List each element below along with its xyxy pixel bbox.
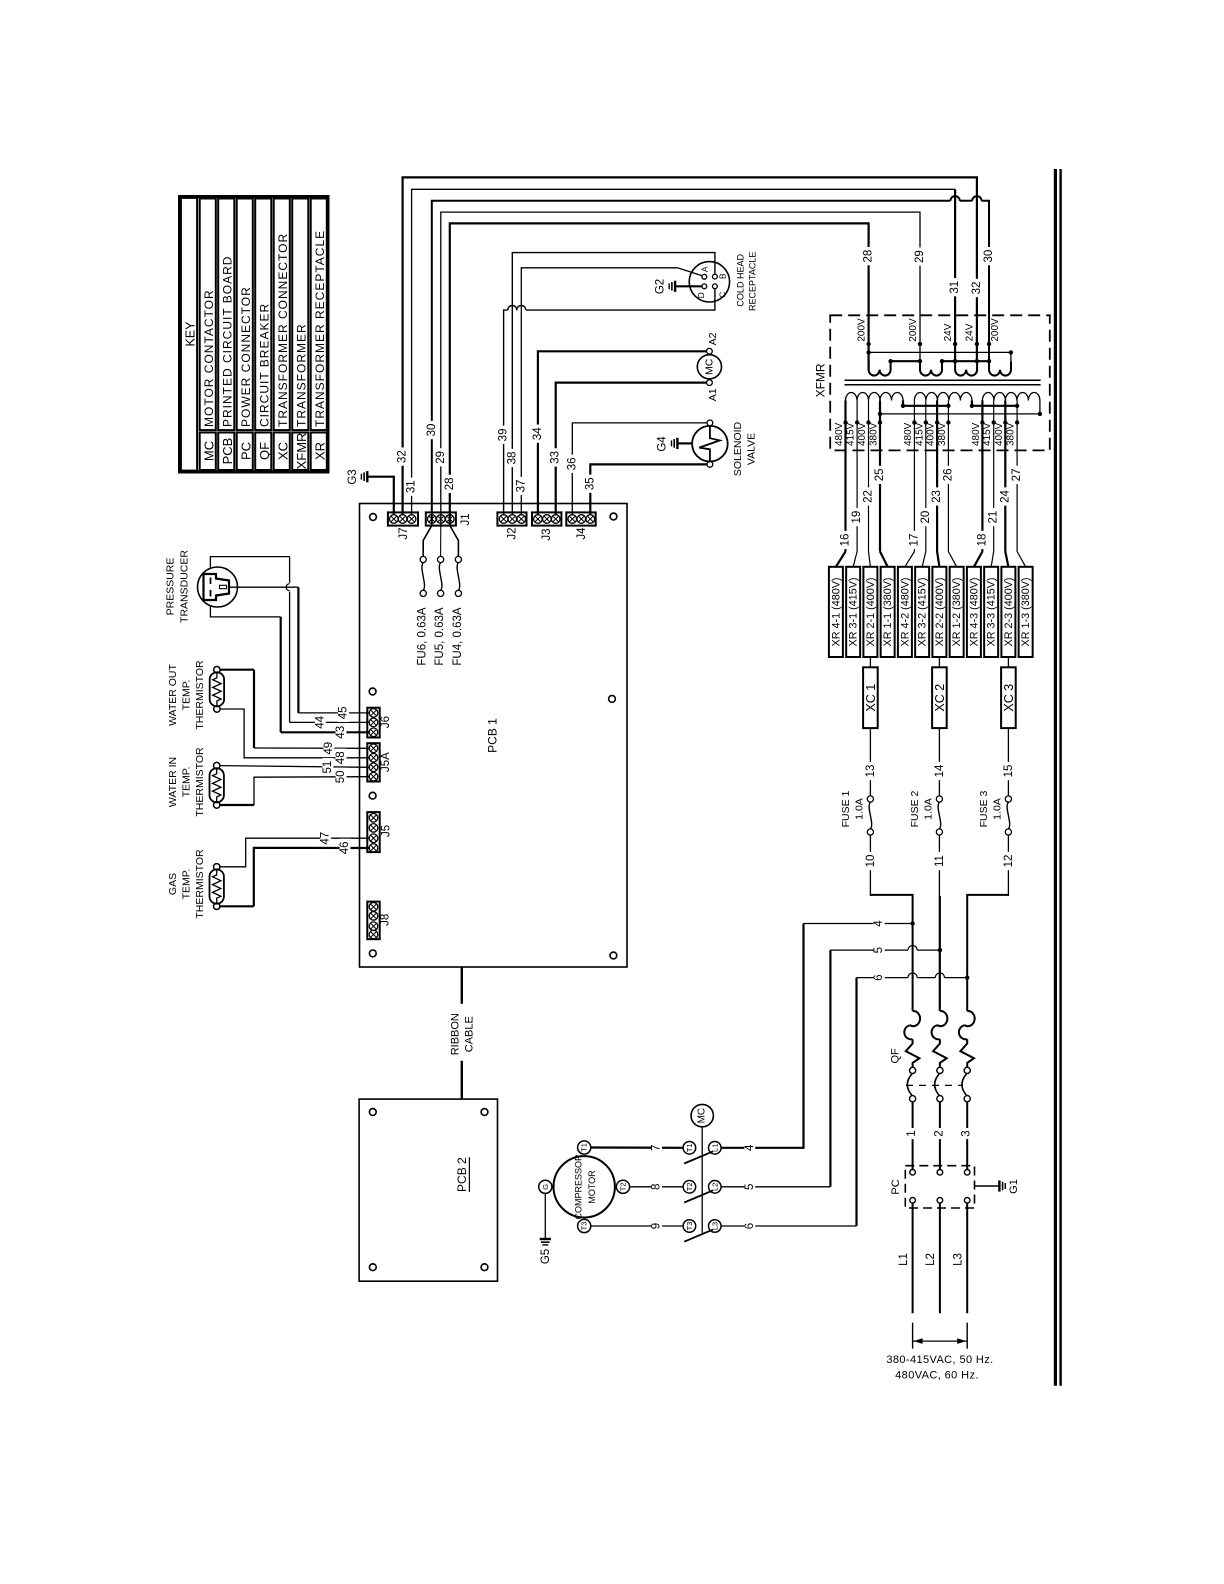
svg-text:G5: G5 xyxy=(540,1249,552,1264)
svg-text:8: 8 xyxy=(651,1184,663,1190)
connector J8 xyxy=(367,902,391,940)
svg-text:24V: 24V xyxy=(943,323,954,341)
svg-text:38: 38 xyxy=(506,452,518,465)
transformer primary winding P3 xyxy=(982,393,1040,401)
svg-text:TRANSFORMER RECEPTACLE: TRANSFORMER RECEPTACLE xyxy=(313,230,327,427)
svg-text:1.0A: 1.0A xyxy=(854,798,866,820)
wire 35 xyxy=(584,464,707,514)
primary tap voltage labels xyxy=(834,422,1017,446)
wire 48 xyxy=(220,709,369,767)
ground G1 xyxy=(975,1179,1021,1194)
svg-text:380V: 380V xyxy=(1006,422,1017,446)
wire 10 xyxy=(865,835,877,896)
svg-text:480V: 480V xyxy=(903,422,914,446)
svg-text:PCB 1: PCB 1 xyxy=(486,718,500,753)
svg-text:THERMISTOR: THERMISTOR xyxy=(194,747,206,817)
svg-text:11: 11 xyxy=(934,855,946,867)
wire L2 xyxy=(925,1203,940,1313)
svg-text:THERMISTOR: THERMISTOR xyxy=(194,660,206,730)
pressure transducer xyxy=(165,550,238,623)
svg-text:XR: XR xyxy=(312,442,327,460)
svg-text:A: A xyxy=(700,266,710,272)
svg-text:415V: 415V xyxy=(846,422,857,446)
wire 32 xyxy=(397,177,983,514)
connector J3 xyxy=(532,512,561,540)
svg-text:J2: J2 xyxy=(507,527,519,539)
terminal block XR 1-3 (380V) xyxy=(1019,567,1033,657)
svg-text:RIBBON: RIBBON xyxy=(450,1013,462,1055)
primary link bus P3-P1 380V xyxy=(878,401,1042,417)
terminal block XR 1-2 (380V) xyxy=(950,567,964,657)
svg-text:FU6, 0.63A: FU6, 0.63A xyxy=(417,607,429,665)
svg-text:PCB 2: PCB 2 xyxy=(455,1157,469,1192)
dimension arrow and supply voltage note xyxy=(886,1323,993,1382)
wire 19 xyxy=(851,423,863,567)
svg-text:T1: T1 xyxy=(685,1143,694,1152)
svg-text:44: 44 xyxy=(314,715,326,728)
svg-text:380V: 380V xyxy=(869,422,880,446)
svg-text:29: 29 xyxy=(435,451,447,464)
page border double rule xyxy=(1055,169,1060,1386)
secondary return bus xyxy=(869,352,1011,361)
wire 11 xyxy=(934,835,946,1011)
svg-text:29: 29 xyxy=(914,250,926,263)
power connector PC xyxy=(890,1166,975,1208)
svg-text:17: 17 xyxy=(908,534,920,547)
svg-text:RECEPTACLE: RECEPTACLE xyxy=(748,252,758,311)
terminal block XR 1-1 (380V) xyxy=(881,567,895,657)
wire 22 xyxy=(863,423,875,567)
svg-text:1.0A: 1.0A xyxy=(923,798,935,820)
svg-text:PCB: PCB xyxy=(220,438,235,465)
wire 18 xyxy=(974,423,989,567)
wire 39 xyxy=(498,289,715,515)
terminal block XR 2-2 (400V) xyxy=(932,567,946,657)
svg-text:PC: PC xyxy=(890,1179,902,1194)
wire 5 xyxy=(721,945,942,1193)
svg-text:47: 47 xyxy=(320,832,332,845)
svg-text:THERMISTOR: THERMISTOR xyxy=(194,849,206,919)
fuse FUSE 3 1.0A xyxy=(978,790,1011,835)
fuse FU4 xyxy=(450,526,464,666)
wire 2 label xyxy=(933,1128,945,1139)
wire 38 xyxy=(506,253,715,515)
svg-text:24V: 24V xyxy=(965,323,976,341)
svg-text:FU5, 0.63A: FU5, 0.63A xyxy=(434,607,446,665)
wire 24 xyxy=(999,423,1011,567)
svg-text:J1: J1 xyxy=(460,513,472,525)
svg-text:VALVE: VALVE xyxy=(746,433,758,465)
svg-text:XR 1-3 (380V): XR 1-3 (380V) xyxy=(1020,577,1032,646)
svg-text:480VAC, 60 Hz.: 480VAC, 60 Hz. xyxy=(895,1370,979,1382)
ground G2 xyxy=(655,279,702,294)
wire 14 xyxy=(934,728,946,796)
svg-text:MC: MC xyxy=(201,441,216,461)
svg-text:22: 22 xyxy=(863,490,875,503)
contact T2-L2 xyxy=(683,1181,721,1203)
svg-text:23: 23 xyxy=(931,490,943,503)
svg-text:TRANSFORMER: TRANSFORMER xyxy=(294,323,308,427)
svg-text:5: 5 xyxy=(744,1184,756,1190)
svg-text:XR 4-1 (480V): XR 4-1 (480V) xyxy=(830,577,842,646)
svg-text:XR 1-1 (380V): XR 1-1 (380V) xyxy=(882,577,894,646)
svg-text:L1: L1 xyxy=(710,1144,719,1152)
svg-text:30: 30 xyxy=(426,424,438,437)
motor contactor MC head xyxy=(691,1104,713,1233)
gas temp thermistor xyxy=(167,849,224,919)
transformer secondary winding S1 xyxy=(869,361,891,375)
svg-text:4: 4 xyxy=(744,1144,756,1151)
wire 45 xyxy=(229,587,369,722)
svg-text:XFMR: XFMR xyxy=(294,433,309,470)
svg-text:45: 45 xyxy=(338,707,350,720)
connector J1 xyxy=(426,512,472,525)
svg-text:2: 2 xyxy=(933,1130,945,1136)
wire 34 xyxy=(532,351,707,514)
svg-text:GAS: GAS xyxy=(167,873,179,895)
svg-text:24: 24 xyxy=(999,490,1011,503)
svg-text:200V: 200V xyxy=(856,318,867,342)
primary link bus P1-P2 xyxy=(901,401,951,408)
svg-text:G1: G1 xyxy=(1008,1179,1020,1194)
svg-text:QF: QF xyxy=(257,442,272,460)
transformer XFMR box xyxy=(814,315,1050,450)
terminal block XR 2-3 (400V) xyxy=(1001,567,1015,657)
solenoid valve G4 xyxy=(692,420,757,476)
svg-text:3: 3 xyxy=(961,1130,973,1136)
terminal block XR 3-2 (415V) xyxy=(915,567,929,657)
svg-text:MOTOR: MOTOR xyxy=(587,1170,597,1204)
secondary junction dots xyxy=(866,342,1013,364)
svg-text:16: 16 xyxy=(840,534,852,547)
fuse FUSE 1 1.0A xyxy=(840,790,873,835)
svg-text:28: 28 xyxy=(444,477,456,490)
svg-text:PRINTED CIRCUIT BOARD: PRINTED CIRCUIT BOARD xyxy=(220,256,234,427)
svg-text:CABLE: CABLE xyxy=(464,1016,476,1052)
svg-text:MC: MC xyxy=(703,358,715,375)
terminal block XR 4-2 (480V) xyxy=(898,567,912,657)
ground G5 xyxy=(540,1193,552,1264)
wire 37 xyxy=(515,268,702,515)
water in temp thermistor xyxy=(167,747,224,817)
svg-text:C: C xyxy=(717,292,727,298)
svg-text:J7: J7 xyxy=(398,527,410,539)
wire 13 xyxy=(865,728,877,796)
svg-text:32: 32 xyxy=(971,282,983,295)
wire 30 xyxy=(426,196,995,525)
fuse FUSE 2 1.0A xyxy=(909,790,942,835)
contact T1-L1 xyxy=(683,1142,721,1164)
terminal block XR 3-3 (415V) xyxy=(984,567,998,657)
ground G3 xyxy=(347,469,367,484)
ground G4 xyxy=(657,436,693,452)
svg-text:SOLENOID: SOLENOID xyxy=(732,421,744,476)
svg-text:415V: 415V xyxy=(914,422,925,446)
svg-text:QF: QF xyxy=(890,1048,902,1064)
svg-text:XR 3-1 (415V): XR 3-1 (415V) xyxy=(848,577,860,646)
svg-text:MC: MC xyxy=(697,1108,708,1124)
svg-text:9: 9 xyxy=(651,1223,663,1229)
wire 50 xyxy=(220,768,369,805)
svg-text:XC 3: XC 3 xyxy=(1002,684,1016,712)
svg-text:KEY: KEY xyxy=(184,321,198,347)
wire fuse1 to QF pole 1 xyxy=(870,895,912,1011)
svg-text:XR 4-3 (480V): XR 4-3 (480V) xyxy=(968,577,980,646)
svg-text:27: 27 xyxy=(1011,469,1023,482)
svg-text:25: 25 xyxy=(874,469,886,482)
circuit breaker QF xyxy=(890,1011,975,1170)
transformer primary winding P2 xyxy=(914,393,972,401)
svg-text:400V: 400V xyxy=(994,422,1005,446)
wire J7 pin1 to ground xyxy=(368,477,394,515)
connector J4 xyxy=(566,512,595,539)
wire 49 xyxy=(220,670,369,758)
wire 46 xyxy=(220,839,369,907)
svg-text:10: 10 xyxy=(865,855,877,868)
svg-text:T3: T3 xyxy=(580,1222,589,1231)
wire 3 label xyxy=(961,1128,973,1139)
connector J2 xyxy=(497,512,526,539)
svg-text:1: 1 xyxy=(906,1130,918,1136)
wire 26 xyxy=(942,423,956,567)
PCB 2 mounting holes xyxy=(369,1109,488,1271)
svg-text:480V: 480V xyxy=(971,422,982,446)
svg-text:XR 2-2 (400V): XR 2-2 (400V) xyxy=(934,577,946,646)
svg-text:37: 37 xyxy=(515,480,527,493)
svg-text:415V: 415V xyxy=(982,422,993,446)
svg-text:26: 26 xyxy=(942,469,954,482)
svg-text:200V: 200V xyxy=(908,318,919,342)
svg-text:XR 4-2 (480V): XR 4-2 (480V) xyxy=(899,577,911,646)
wire fuse3 to QF pole 3 xyxy=(967,895,1008,1011)
wire L1 xyxy=(898,1203,913,1313)
svg-text:J4: J4 xyxy=(576,527,588,540)
svg-text:380V: 380V xyxy=(937,422,948,446)
svg-text:XR 3-3 (415V): XR 3-3 (415V) xyxy=(986,577,998,646)
connector J7 xyxy=(388,512,418,539)
key table xyxy=(180,197,329,473)
svg-text:POWER CONNECTOR: POWER CONNECTOR xyxy=(239,286,253,427)
svg-text:400V: 400V xyxy=(926,422,937,446)
wire 33 xyxy=(550,383,707,515)
svg-text:5: 5 xyxy=(873,947,885,953)
svg-text:7: 7 xyxy=(651,1145,663,1151)
svg-text:T2: T2 xyxy=(685,1182,694,1191)
svg-text:49: 49 xyxy=(323,742,335,755)
svg-text:J3: J3 xyxy=(541,528,553,540)
svg-text:L2: L2 xyxy=(710,1183,719,1191)
svg-text:J8: J8 xyxy=(380,914,392,926)
terminal block XR 3-1 (415V) xyxy=(846,567,860,657)
wire 12 xyxy=(1003,835,1015,896)
connector J6 xyxy=(367,708,392,738)
svg-text:TEMP.: TEMP. xyxy=(181,680,193,711)
svg-text:20: 20 xyxy=(920,511,932,524)
svg-text:PC: PC xyxy=(238,442,253,460)
svg-text:6: 6 xyxy=(873,974,885,980)
svg-text:21: 21 xyxy=(988,511,1000,524)
svg-text:TEMP.: TEMP. xyxy=(181,767,193,798)
svg-text:WATER OUT: WATER OUT xyxy=(167,664,179,726)
wire 20 xyxy=(920,423,932,567)
terminal block XR 4-1 (480V) xyxy=(829,567,843,657)
terminal block XR 2-1 (400V) xyxy=(863,567,877,657)
svg-text:CIRCUIT BREAKER: CIRCUIT BREAKER xyxy=(257,303,271,427)
wire 17 xyxy=(905,423,921,567)
svg-text:4: 4 xyxy=(873,920,885,927)
wire 6 xyxy=(721,972,969,1232)
svg-text:200V: 200V xyxy=(990,318,1001,342)
svg-text:G3: G3 xyxy=(347,469,359,484)
wire 31 xyxy=(406,189,962,514)
svg-text:L3: L3 xyxy=(953,1253,965,1266)
svg-text:XR 2-1 (400V): XR 2-1 (400V) xyxy=(865,577,877,646)
svg-text:FUSE 3: FUSE 3 xyxy=(978,790,990,827)
PCB 1 board outline xyxy=(360,504,628,968)
svg-text:MOTOR CONTACTOR: MOTOR CONTACTOR xyxy=(202,289,216,427)
svg-text:T1: T1 xyxy=(580,1143,589,1152)
svg-text:T2: T2 xyxy=(619,1182,628,1191)
svg-text:28: 28 xyxy=(863,250,875,263)
svg-text:19: 19 xyxy=(851,511,863,524)
wire 44 xyxy=(210,557,369,732)
wire 28 xyxy=(444,223,875,525)
primary tap leads and terminal dots xyxy=(843,401,1019,425)
contact T3-L3 xyxy=(683,1220,721,1242)
svg-text:XC: XC xyxy=(275,442,290,460)
svg-text:FU4, 0.63A: FU4, 0.63A xyxy=(452,607,464,665)
svg-text:50: 50 xyxy=(335,771,347,784)
svg-text:J6: J6 xyxy=(380,716,392,728)
svg-text:32: 32 xyxy=(397,450,409,463)
motor contactor coil MC xyxy=(697,332,721,401)
svg-text:L1: L1 xyxy=(898,1253,910,1266)
svg-text:6: 6 xyxy=(744,1223,756,1229)
wire 43 xyxy=(210,606,369,742)
svg-text:34: 34 xyxy=(532,427,544,440)
svg-text:WATER IN: WATER IN xyxy=(167,757,179,807)
wire L3 xyxy=(953,1203,968,1313)
svg-text:51: 51 xyxy=(322,761,334,774)
svg-text:46: 46 xyxy=(339,842,351,855)
svg-text:39: 39 xyxy=(498,429,510,442)
compressor motor xyxy=(539,1141,630,1233)
PCB 1 mounting holes xyxy=(369,513,617,959)
wire 47 xyxy=(220,829,369,867)
secondary tap labels xyxy=(856,318,1001,342)
svg-text:FUSE 2: FUSE 2 xyxy=(909,790,921,827)
wire 27 xyxy=(1011,423,1026,567)
svg-text:XFMR: XFMR xyxy=(814,363,828,397)
transformer primary winding P1 xyxy=(846,393,904,401)
svg-text:13: 13 xyxy=(865,765,877,778)
wire 16 xyxy=(836,423,852,567)
svg-text:XR 2-3 (400V): XR 2-3 (400V) xyxy=(1003,577,1015,646)
svg-text:480V: 480V xyxy=(834,422,845,446)
svg-text:A1: A1 xyxy=(707,388,719,401)
wire 9 xyxy=(591,1220,683,1231)
ribbon cable xyxy=(450,967,476,1099)
svg-text:31: 31 xyxy=(949,281,961,294)
svg-text:33: 33 xyxy=(550,451,562,464)
wire fuse2 to QF pole 2 xyxy=(939,896,941,1011)
terminal block XR 4-3 (480V) xyxy=(967,567,981,657)
svg-text:G2: G2 xyxy=(655,279,667,294)
svg-text:30: 30 xyxy=(983,250,995,263)
secondary link bar S2-S4 xyxy=(942,360,989,362)
svg-text:43: 43 xyxy=(335,726,347,739)
transformer core xyxy=(845,380,1041,384)
svg-text:TEMP.: TEMP. xyxy=(181,869,193,900)
secondary link bar S1-S2 xyxy=(891,360,920,362)
svg-text:L3: L3 xyxy=(710,1222,719,1230)
svg-text:XC 2: XC 2 xyxy=(933,684,947,712)
wire 8 xyxy=(630,1181,684,1192)
svg-text:TRANSDUCER: TRANSDUCER xyxy=(178,550,190,623)
svg-text:XC 1: XC 1 xyxy=(864,684,878,712)
PCB 2 board outline xyxy=(359,1099,497,1281)
svg-text:G: G xyxy=(541,1184,550,1190)
fuse FU5 xyxy=(434,526,446,666)
svg-text:400V: 400V xyxy=(857,422,868,446)
wire 23 xyxy=(931,423,943,567)
svg-text:B: B xyxy=(717,273,727,279)
svg-text:36: 36 xyxy=(566,457,578,470)
svg-text:FUSE 1: FUSE 1 xyxy=(840,790,852,827)
wire 21 xyxy=(988,423,1000,567)
wire 29 xyxy=(435,212,926,525)
svg-text:35: 35 xyxy=(584,477,596,490)
svg-text:G4: G4 xyxy=(657,436,669,452)
svg-text:PRESSURE: PRESSURE xyxy=(165,558,177,616)
svg-text:T3: T3 xyxy=(685,1222,694,1231)
connector J5 xyxy=(367,812,392,852)
svg-text:TRANSFORMER CONNECTOR: TRANSFORMER CONNECTOR xyxy=(276,233,290,427)
connector XC 2 xyxy=(932,657,947,728)
fuse FU6 xyxy=(417,526,432,666)
transformer secondary winding S2 xyxy=(920,361,942,375)
primary link bus P2-P3 xyxy=(970,401,1020,408)
connector J5A xyxy=(367,743,392,781)
svg-text:A2: A2 xyxy=(707,332,719,345)
svg-text:1.0A: 1.0A xyxy=(992,798,1004,820)
connector XC 1 xyxy=(863,657,878,728)
connector XC 3 xyxy=(1001,657,1016,728)
svg-text:31: 31 xyxy=(406,480,418,493)
svg-text:COMPRESSOR: COMPRESSOR xyxy=(574,1154,584,1220)
svg-text:XR 1-2 (380V): XR 1-2 (380V) xyxy=(951,577,963,646)
svg-text:COLD HEAD: COLD HEAD xyxy=(736,254,746,307)
svg-text:18: 18 xyxy=(976,534,988,547)
svg-text:12: 12 xyxy=(1003,855,1015,868)
wire 36 xyxy=(566,423,707,515)
water out temp thermistor xyxy=(167,660,224,730)
wire 7 xyxy=(591,1142,683,1153)
cold head receptacle G2 xyxy=(689,252,757,311)
transformer secondary winding S4 xyxy=(989,361,1011,375)
svg-text:XR 3-2 (415V): XR 3-2 (415V) xyxy=(917,577,929,646)
wire 25 xyxy=(874,423,888,567)
svg-text:J5A: J5A xyxy=(380,752,392,772)
transformer secondary winding S3 xyxy=(955,361,977,375)
svg-text:14: 14 xyxy=(934,764,946,777)
svg-text:48: 48 xyxy=(335,751,347,764)
wire 4 xyxy=(721,918,915,1153)
svg-text:15: 15 xyxy=(1003,765,1015,778)
svg-text:J5: J5 xyxy=(381,825,393,837)
wire 1 label xyxy=(906,1128,918,1139)
svg-text:D: D xyxy=(696,292,706,298)
